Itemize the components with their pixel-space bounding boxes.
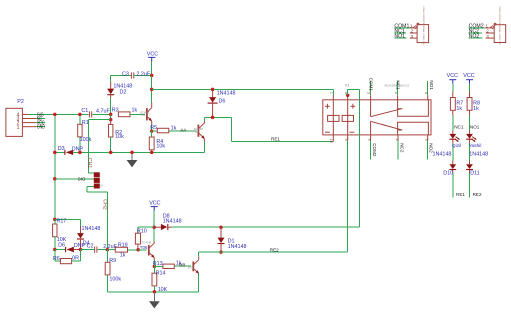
node R19-R10 junction: [136, 248, 140, 252]
ground GND1: [127, 151, 138, 168]
node SIG pad junction: [53, 177, 57, 181]
pin 5 NO1: [424, 80, 434, 99]
svg-text:1k: 1k: [120, 253, 126, 259]
svg-text:Yashil: Yashil: [469, 143, 482, 149]
pin 10 stub: [329, 135, 333, 143]
node VCC: [36, 121, 45, 127]
svg-text:NO1: NO1: [470, 125, 480, 130]
svg-text:1N4148: 1N4148: [228, 244, 247, 250]
svg-text:C3: C3: [122, 72, 129, 78]
svg-text:T04: T04: [141, 114, 146, 117]
svg-text:6: 6: [424, 139, 428, 141]
connector P2: [6, 99, 37, 136]
resistor R7: [450, 98, 463, 134]
node C2-R9 junction: [106, 248, 110, 252]
transistor Q1: [140, 103, 152, 126]
node D1 top junction: [219, 225, 223, 229]
jumper SJ1 pad CH2: [94, 184, 104, 189]
svg-text:GND: GND: [37, 125, 45, 131]
wire COM1 stub: [394, 23, 409, 29]
power VCC top: [147, 52, 158, 76]
svg-text:100k: 100k: [109, 276, 121, 282]
svg-text:9: 9: [344, 139, 348, 141]
pin 6 coil2 stub: [344, 92, 350, 100]
svg-text:VCC: VCC: [463, 73, 474, 79]
pin 8 COM2: [367, 135, 377, 160]
jumper SJ1 pad CH1: [94, 172, 100, 177]
node R2 junction: [109, 118, 113, 122]
diode D2: [107, 75, 132, 114]
node SIG junction: [53, 113, 57, 117]
wire NO2 stub: [469, 34, 483, 40]
svg-text:CH1: CH1: [86, 158, 92, 168]
wire D8 output: [172, 226, 360, 228]
power VCC led1: [447, 73, 458, 98]
svg-text:RE1: RE1: [271, 137, 280, 142]
svg-text:1: 1: [330, 92, 334, 94]
wire D4 branch: [55, 219, 81, 226]
diode D1: [218, 227, 247, 254]
wire COM2 stub: [469, 23, 486, 29]
svg-text:1k: 1k: [473, 106, 479, 112]
wire AA net: [169, 127, 197, 132]
wire link: [110, 114, 112, 119]
wire NO1 stub: [394, 34, 406, 40]
svg-text:BB: BB: [179, 262, 185, 267]
svg-text:B 14148: B 14148: [142, 241, 152, 244]
LED1 Qizil: [449, 134, 461, 164]
svg-text:VCC: VCC: [447, 73, 458, 79]
power VCC lower: [149, 201, 160, 228]
svg-text:NC1: NC1: [454, 125, 464, 130]
svg-text:RE2: RE2: [473, 192, 482, 197]
pin 6 NO2: [424, 135, 433, 160]
wire CH1 riser: [89, 120, 111, 174]
diode D11: [466, 152, 488, 198]
svg-text:10K: 10K: [158, 287, 168, 293]
wire T1 emitter: [153, 260, 155, 266]
diode D4: [77, 226, 100, 250]
connector J2 COM2: [485, 6, 505, 45]
wire collector riser: [151, 75, 153, 102]
capacitor C1: [81, 108, 110, 117]
wire NC2 stub: [469, 29, 482, 35]
svg-text:D6: D6: [219, 99, 226, 105]
svg-text:SIG: SIG: [78, 177, 86, 182]
wire T1 base: [138, 249, 146, 251]
svg-text:COM2: COM2: [372, 143, 377, 157]
svg-text:4: 4: [393, 92, 397, 94]
svg-text:1N4148: 1N4148: [82, 226, 101, 232]
wire CH2: [87, 186, 108, 249]
resistor R9: [105, 250, 121, 292]
svg-text:1N4148: 1N4148: [163, 218, 182, 224]
svg-text:D11: D11: [470, 171, 480, 177]
svg-text:NO1: NO1: [394, 34, 405, 40]
resistor R17: [53, 219, 67, 250]
svg-text:R10: R10: [137, 228, 147, 234]
svg-text:100k: 100k: [80, 137, 92, 143]
diode D6 flyback: [208, 88, 236, 120]
wire coil2 link: [348, 89, 360, 227]
transistor Q2: [194, 121, 205, 142]
resistor R3: [112, 108, 145, 117]
jumper SJ1 pad SIG: [94, 178, 100, 183]
svg-text:VCC: VCC: [149, 201, 160, 207]
svg-text:1N4148: 1N4148: [217, 91, 236, 97]
node R14 bottom junction: [153, 290, 157, 294]
node emitter junction: [150, 129, 154, 133]
wire coil rail: [152, 89, 334, 95]
svg-text:RE2: RE2: [270, 247, 279, 252]
diode D6 DNP: [55, 243, 86, 253]
connector J1 COM1: [410, 6, 429, 45]
svg-text:NO1: NO1: [429, 80, 434, 90]
svg-text:AA: AA: [180, 127, 187, 132]
svg-text:D6: D6: [58, 243, 65, 249]
svg-text:VCC: VCC: [147, 52, 158, 58]
diode D8: [154, 213, 181, 230]
wire NC1 stub: [394, 29, 406, 35]
svg-text:2.2uF: 2.2uF: [136, 72, 150, 78]
svg-text:1k: 1k: [456, 106, 462, 112]
diode D10: [433, 152, 457, 198]
LED2 Yashil: [466, 134, 481, 164]
pin 2 NC2: [395, 135, 405, 160]
diode D3: [58, 146, 84, 155]
transistor T2: [188, 256, 199, 274]
svg-text:R1: R1: [82, 120, 89, 126]
svg-text:1N4148: 1N4148: [469, 152, 488, 158]
svg-text:2: 2: [395, 139, 399, 141]
svg-text:R13: R13: [153, 261, 163, 267]
relay coil 2: [342, 100, 355, 135]
svg-text:K1: K1: [345, 83, 349, 87]
wire SIG to jumper: [55, 177, 94, 182]
node R17-D6 junction: [53, 248, 57, 252]
wire Q2 collector net: [204, 117, 231, 141]
resistor R5: [150, 125, 176, 133]
svg-text:4.7uF: 4.7uF: [96, 108, 110, 114]
svg-text:R9: R9: [109, 258, 116, 264]
relay K1 body: [323, 83, 431, 134]
wire T1 collector riser: [153, 227, 155, 241]
node T1 emitter junction: [153, 265, 157, 269]
svg-text:RE1: RE1: [456, 192, 465, 197]
svg-text:1N4148: 1N4148: [433, 152, 452, 158]
capacitor C3: [111, 72, 152, 79]
node VCC-C3 junction: [150, 74, 154, 78]
resistor R19: [107, 243, 138, 259]
svg-text:8: 8: [367, 139, 371, 141]
pin 3 COM1: [366, 78, 373, 100]
node SIG lower junction: [53, 218, 57, 222]
svg-text:CH2: CH2: [102, 199, 108, 209]
svg-text:CONN-SCREWTERMINAL-3.5MM-3JD: CONN-SCREWTERMINAL-3.5MM-3JD: [498, 6, 501, 45]
wire SIG vertical: [54, 114, 56, 219]
wire RE2 riser: [347, 141, 349, 252]
node GND: [36, 125, 45, 131]
pin 1 stub: [330, 92, 334, 100]
svg-text:0R: 0R: [72, 255, 79, 261]
svg-text:3: 3: [366, 92, 370, 94]
wire BB net: [174, 262, 191, 267]
transistor T1: [140, 241, 155, 260]
svg-text:COM1: COM1: [368, 78, 373, 92]
svg-text:C2: C2: [87, 244, 94, 250]
svg-text:P2: P2: [17, 99, 24, 105]
svg-text:5: 5: [424, 92, 428, 94]
svg-text:R14: R14: [156, 270, 166, 276]
resistor R6: [53, 250, 81, 264]
svg-text:1K: 1K: [100, 184, 103, 187]
resistor R8: [467, 98, 480, 134]
svg-text:10: 10: [329, 139, 333, 143]
svg-text:R5: R5: [150, 125, 157, 131]
resistor R2: [109, 120, 125, 153]
wire Q2 emitter to gnd: [203, 142, 205, 153]
svg-text:1: 1: [17, 125, 20, 131]
wire ground rail: [55, 151, 205, 153]
wire Q1 emitter: [151, 125, 153, 131]
pin 4 NC1: [393, 80, 400, 99]
svg-text:R17: R17: [57, 219, 67, 225]
node R1 bottom junction: [78, 151, 82, 155]
svg-text:Qizil: Qizil: [452, 143, 461, 149]
svg-text:C1: C1: [81, 108, 88, 114]
svg-text:NC1: NC1: [395, 80, 400, 90]
node VCC-D8 junction: [152, 225, 156, 229]
svg-text:D10: D10: [443, 171, 453, 177]
svg-text:DNP: DNP: [72, 146, 84, 152]
resistor R4: [149, 131, 165, 152]
svg-text:R19: R19: [118, 243, 128, 249]
wire bottom rail: [107, 291, 198, 293]
wire RE2: [199, 247, 348, 256]
svg-text:10k: 10k: [156, 144, 165, 150]
svg-text:R6: R6: [53, 256, 60, 262]
node R4 bottom junction: [150, 151, 154, 155]
svg-text:10k: 10k: [115, 134, 124, 140]
node D4-C2 junction: [79, 248, 83, 252]
svg-text:D2: D2: [120, 89, 127, 95]
wire R10 top branch: [138, 226, 154, 228]
node NC: [36, 116, 44, 122]
ground GND2: [149, 292, 160, 309]
svg-text:T03: T03: [194, 131, 199, 134]
resistor R1: [78, 113, 92, 153]
relay switch 2: [371, 121, 429, 135]
capacitor C2: [81, 244, 118, 253]
node C1-R3 junction: [109, 113, 113, 117]
wire RE1: [232, 137, 334, 142]
relay switch 1: [371, 100, 429, 117]
resistor R14: [152, 266, 168, 293]
node R2 bottom junction: [109, 151, 113, 155]
resistor R13: [153, 261, 182, 269]
node D3 left junction: [53, 151, 57, 155]
svg-text:NO2: NO2: [469, 34, 480, 40]
resistor R10: [135, 227, 146, 250]
svg-text:NC2: NC2: [399, 143, 404, 153]
svg-text:T06: T06: [140, 245, 148, 250]
svg-text:R3: R3: [112, 108, 119, 114]
svg-text:B 546: B 546: [188, 266, 195, 269]
pin 9 stub: [344, 135, 348, 141]
wire T2 emitter: [198, 273, 200, 291]
svg-text:CONN-SCREWTERMINAL-3.5MM-3JD: CONN-SCREWTERMINAL-3.5MM-3JD: [422, 6, 425, 45]
svg-text:1k: 1k: [132, 108, 138, 114]
svg-text:D3: D3: [58, 146, 65, 152]
power VCC led2: [463, 73, 474, 98]
node rail start: [150, 88, 154, 92]
wire SIG from P2: [29, 112, 89, 118]
relay coil 1: [325, 100, 339, 135]
